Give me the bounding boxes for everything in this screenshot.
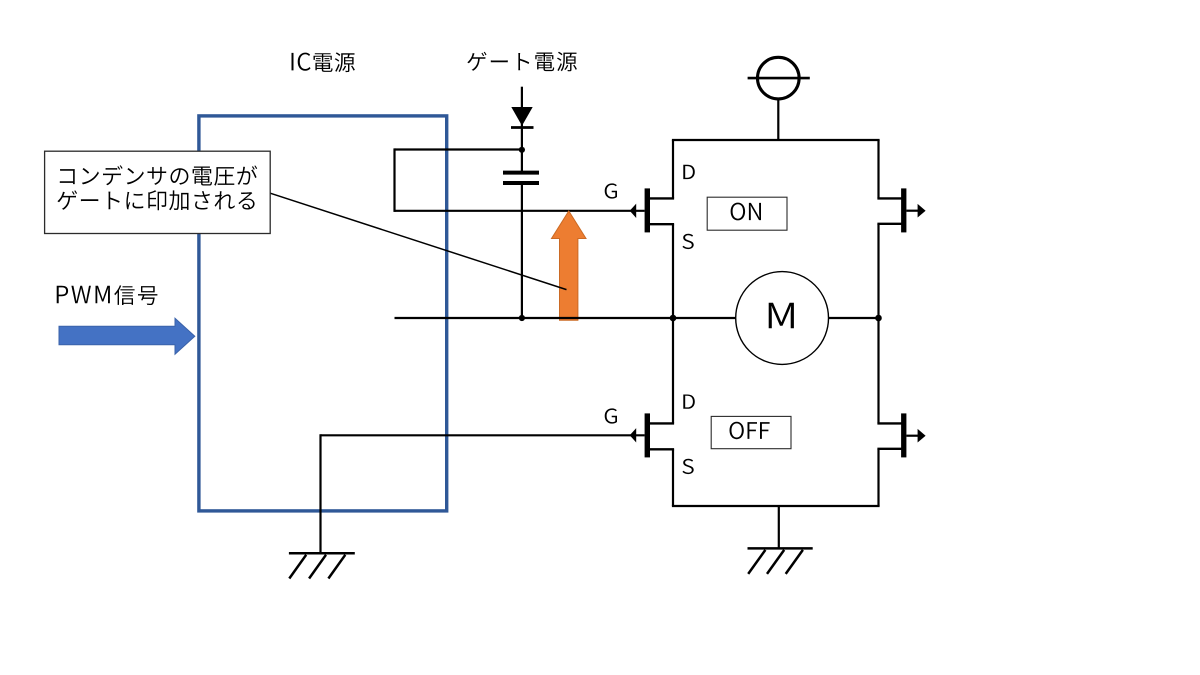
PWM signal arrow (blue) (59, 318, 195, 354)
pin label G (Q3 gate) (605, 408, 617, 423)
label OFF (730, 422, 770, 439)
node D (bridge right rail / motor junction) (875, 315, 882, 322)
wire top gate net (to Q1 gate, with arrow) (395, 210, 645, 212)
OFF state box (711, 416, 791, 448)
label ゲート電源 (467, 52, 577, 72)
ground symbol (right, bridge ground) (748, 548, 813, 574)
motor M1 (DC motor) (736, 272, 829, 365)
wire bridge left rail lower (node C to Q3 drain) (672, 318, 674, 423)
gate arrowhead at Q3 (630, 428, 637, 442)
wire bridge right rail lower (node D to Q4 drain) (877, 318, 879, 423)
wire bridge left rail upper (top rail to Q1 drain) (672, 140, 674, 198)
wire gate-supply feed (vertical into diode) (521, 87, 523, 150)
wire node C to motor left terminal (673, 317, 736, 319)
wire bridge right rail bottom (Q4 source to bottom rail) (877, 449, 879, 506)
wire bridge right rail mid (Q2 source to node D) (877, 224, 879, 318)
gate arrowhead at Q1 (630, 204, 637, 218)
wire bridge left rail bottom (Q3 source to bottom rail) (672, 449, 674, 506)
transistor Q1 (high-side MOSFET, ON) (645, 188, 675, 232)
callout box (annotation) (45, 151, 271, 233)
wire node A to capacitor top plate (521, 150, 523, 172)
node A (diode cathode / bootstrap loop junction) (519, 147, 525, 153)
label M (motor) (769, 303, 794, 329)
label PWM信号 (57, 285, 158, 305)
leader line from callout to orange arrow (270, 193, 566, 289)
pin label S (Q1 source) (682, 234, 693, 249)
wire motor right terminal to node D (828, 317, 878, 319)
label IC電源 (292, 52, 355, 72)
pin label D (Q1 drain) (683, 165, 695, 179)
capacitor C1 (bootstrap capacitor) (503, 173, 539, 183)
ON state box (707, 197, 787, 230)
wire bridge right rail upper (top rail to Q2 drain) (877, 140, 879, 198)
node B (capacitor / output junction) (519, 315, 525, 321)
wire bootstrap loop left (vertical) (393, 148, 395, 212)
wire bridge top rail (672, 139, 880, 141)
label ON (731, 203, 761, 221)
pin label G (Q1 gate) (605, 183, 617, 198)
ground symbol (left, IC ground) (289, 553, 355, 578)
transistor Q2 (top-right MOSFET) (877, 188, 925, 232)
transistor Q3 (low-side MOSFET, OFF) (645, 413, 675, 457)
node C (bridge left rail / motor junction) (670, 315, 677, 322)
wire bridge left rail mid (Q1 source to node C) (672, 224, 674, 318)
diode D1 (bootstrap diode, cathode down) (511, 107, 534, 128)
wire bottom gate net vertical (down to ground) (319, 434, 321, 553)
wire output bus (node B to H-bridge left rail) (395, 317, 674, 319)
wire bridge bottom rail to ground (778, 506, 780, 548)
wire bootstrap loop top (node A to left) (395, 148, 522, 150)
transistor Q4 (bottom-right MOSFET) (877, 413, 925, 457)
wire bottom gate net horizontal (to Q3 gate) (321, 434, 645, 436)
pin label D (Q3 drain) (683, 395, 695, 409)
pin label S (Q3 source) (682, 459, 693, 474)
wire V+ to bridge top rail (777, 99, 779, 141)
power supply V+ (circle with bar) (748, 57, 810, 99)
wire capacitor bottom plate to output node B (521, 185, 523, 318)
callout text line 1 コンデンサの電圧が (60, 165, 257, 185)
wire bridge bottom rail (672, 505, 880, 507)
IC block rectangle (IC電源 block) (199, 116, 447, 511)
orange arrow (capacitor voltage applied to gate) (552, 211, 587, 320)
callout text line 2 ゲートに印加される (57, 190, 254, 210)
